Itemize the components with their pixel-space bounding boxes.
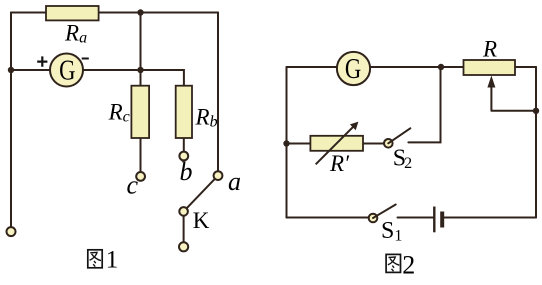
wire: fig1 galvanometer row (11, 69, 141, 71)
svg-text:2: 2 (402, 250, 415, 279)
switch S1 blade (373, 205, 396, 219)
wire: battery to right corner (444, 217, 536, 219)
terminal a (214, 171, 223, 180)
wire: fig1 vertical through junction into Rc and down to c (140, 13, 142, 173)
junction dot top (137, 9, 143, 15)
wire: Rb stub down to terminal b (183, 138, 185, 152)
wire: fig2 bottom wire left of S1 (287, 217, 370, 219)
bottom terminal of K (179, 242, 188, 251)
terminal c (136, 172, 145, 181)
svg-text:K: K (193, 208, 210, 233)
resistor Rb (176, 86, 192, 138)
plus sign (37, 56, 47, 66)
svg-text:R′: R′ (329, 151, 350, 176)
wire: fig2 right wire (535, 67, 537, 218)
junction dot fig2 left (283, 140, 289, 146)
wire: fig2 top wire (287, 66, 537, 68)
svg-text:R: R (482, 37, 497, 62)
wire: R' branch (287, 143, 385, 145)
svg-text:a: a (228, 167, 241, 196)
switch S2 circle (384, 139, 393, 148)
wire: branch to Rb (141, 70, 184, 86)
arrow through R' (316, 126, 355, 165)
caption fig2 glyph (386, 254, 400, 272)
svg-text:G: G (345, 53, 361, 85)
junction dot fig2 right (533, 108, 539, 114)
wire: wiper connection of R (491, 84, 536, 111)
svg-text:G: G (59, 54, 75, 86)
wire: S1 fixed side to battery (398, 217, 434, 219)
wire: fig2 left wire (286, 67, 288, 218)
wire: fig1 top wire (11, 12, 218, 14)
galvanometer G2 circle (337, 52, 370, 85)
wire: K pivot to bottom terminal (183, 211, 185, 242)
terminal b (179, 152, 188, 161)
switch S1 circle (369, 214, 378, 223)
switch K pivot circle (179, 207, 188, 216)
wire: switch K blade from a to pivot (184, 176, 218, 212)
svg-text:c: c (127, 171, 139, 200)
svg-text:b: b (180, 157, 193, 186)
junction dot mid (137, 67, 143, 73)
switch S2 blade (388, 128, 410, 143)
wire: S2 fixed side then up (408, 67, 440, 142)
resistor R' (310, 136, 363, 151)
caption fig1 glyph (88, 250, 102, 268)
junction dot left (8, 67, 14, 73)
battery long plate (433, 207, 435, 233)
svg-text:1: 1 (106, 247, 119, 274)
battery short plate (440, 212, 444, 228)
terminal circle left-bottom (7, 227, 16, 236)
wiper arrowhead (487, 76, 495, 88)
galvanometer G1 circle (50, 54, 83, 87)
minus sign (82, 58, 89, 60)
resistor R (rheostat) (464, 60, 516, 75)
wire: fig1 right wire down to terminal a (217, 13, 219, 172)
junction dot fig2 top (438, 64, 444, 70)
resistor Ra (46, 6, 99, 20)
resistor Rc (131, 86, 149, 138)
wire: fig1 left wire (10, 13, 12, 229)
